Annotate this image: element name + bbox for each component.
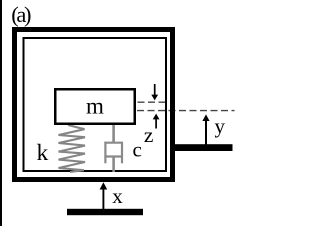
damper c : piston plate xyxy=(104,155,123,157)
y up arrow xyxy=(205,120,207,145)
svg-text:y: y xyxy=(215,114,226,138)
z down arrow xyxy=(154,84,156,96)
svg-text:(a): (a) xyxy=(11,2,31,27)
outer box (rigid frame) xyxy=(15,30,173,180)
ground bar for x xyxy=(67,209,143,215)
svg-text:m: m xyxy=(86,94,104,119)
panel divider line (left edge) xyxy=(0,0,2,226)
damper c : top rod xyxy=(112,125,115,144)
svg-text:x: x xyxy=(112,184,123,208)
support shelf for y (attached to box) xyxy=(175,144,233,151)
svg-text:z: z xyxy=(144,123,154,147)
dashed reference line (lower, through box wall to right) xyxy=(137,110,235,112)
z up arrow xyxy=(155,119,157,129)
mass block m xyxy=(55,89,135,124)
svg-text:k: k xyxy=(37,140,49,166)
x up arrow xyxy=(102,188,104,209)
damper c : cylinder left wall xyxy=(104,142,106,164)
svg-text:c: c xyxy=(133,138,142,162)
damper c : cylinder right wall xyxy=(121,142,123,164)
spring k xyxy=(59,125,86,172)
damper c : cylinder top xyxy=(104,142,123,144)
dashed reference line (upper, inside box) xyxy=(138,101,166,103)
damper c : bottom rod xyxy=(112,157,115,173)
inner box wall xyxy=(24,38,167,171)
